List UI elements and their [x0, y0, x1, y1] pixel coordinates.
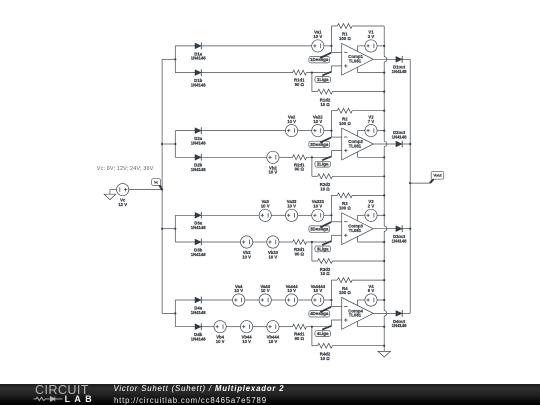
svg-text:10 Ω: 10 Ω	[320, 102, 330, 107]
wire	[175, 241, 195, 243]
wire	[311, 242, 313, 261]
svg-text:90 Ω: 90 Ω	[295, 336, 305, 341]
svg-text:10 V: 10 V	[261, 204, 270, 209]
svg-text:10 V: 10 V	[269, 254, 278, 259]
node output bus	[409, 59, 411, 313]
svg-text:10 V: 10 V	[242, 254, 251, 259]
svg-text:90 Ω: 90 Ω	[295, 82, 305, 87]
junction	[383, 326, 385, 328]
svg-text:10 V: 10 V	[287, 204, 296, 209]
op-amp Comp4	[342, 298, 374, 330]
wire	[373, 312, 396, 314]
wire	[162, 58, 175, 60]
wire	[253, 241, 267, 243]
voltage source Va4444	[311, 284, 326, 306]
svg-text:4Desliga: 4Desliga	[310, 311, 329, 316]
junction	[330, 45, 332, 47]
wire	[358, 45, 365, 47]
svg-text:90 Ω: 90 Ω	[295, 167, 305, 172]
resistor R4d1	[293, 324, 307, 341]
voltage source Vb2	[267, 151, 279, 175]
wire	[201, 156, 267, 158]
svg-text:Vc: Vc	[154, 181, 158, 185]
svg-text:1N4148: 1N4148	[191, 82, 207, 87]
wire	[402, 228, 410, 230]
wire	[358, 156, 385, 158]
voltage source V1	[365, 30, 377, 52]
voltage source Va3	[259, 199, 271, 221]
wire	[357, 215, 359, 221]
wire	[174, 215, 176, 242]
resistor R2d1	[293, 155, 307, 172]
wire	[358, 326, 385, 328]
junction	[174, 312, 176, 314]
wire	[175, 326, 195, 328]
svg-text:10 Ω: 10 Ω	[320, 271, 330, 276]
svg-text:LAB: LAB	[65, 394, 96, 404]
junction	[330, 299, 332, 301]
wire	[331, 279, 337, 281]
switch 1Liga	[315, 72, 331, 83]
wire	[175, 299, 195, 301]
wire	[201, 72, 292, 74]
wire	[279, 326, 293, 328]
wire	[312, 345, 318, 347]
wire	[330, 215, 332, 222]
diode D4out	[392, 310, 408, 328]
wire	[271, 214, 285, 216]
resistor R1d2	[318, 89, 333, 107]
wire	[332, 175, 384, 177]
junction	[161, 143, 163, 145]
wire	[330, 111, 332, 131]
resistor R2	[337, 108, 352, 126]
wire	[312, 260, 318, 262]
svg-text:1N4148: 1N4148	[191, 56, 207, 61]
svg-text:TL081: TL081	[349, 228, 362, 233]
svg-text:100 Ω: 100 Ω	[339, 290, 351, 295]
junction	[383, 91, 385, 93]
wire	[330, 280, 332, 300]
wire	[312, 91, 318, 93]
wire	[324, 130, 332, 132]
wire	[352, 279, 384, 281]
diode D1a	[191, 43, 207, 61]
svg-text:Vout: Vout	[433, 173, 442, 178]
voltage source V2	[365, 114, 377, 136]
svg-text:10 V: 10 V	[269, 170, 278, 175]
junction	[383, 194, 385, 196]
wire	[129, 189, 162, 191]
junction	[383, 175, 385, 177]
wire	[330, 131, 332, 138]
junction	[383, 241, 385, 243]
wire	[298, 130, 312, 132]
net flag Vout	[430, 171, 444, 183]
voltage source Vb4	[214, 321, 226, 345]
junction	[383, 299, 385, 301]
resistor R2d2	[318, 174, 333, 192]
footer title text	[114, 384, 285, 393]
wire	[201, 241, 240, 243]
voltage source Va22	[312, 114, 324, 136]
diode D3b	[191, 239, 207, 257]
diode D2out	[392, 130, 408, 147]
wire	[226, 326, 240, 328]
node Vc bus	[161, 59, 163, 313]
svg-text:10 V: 10 V	[242, 339, 251, 344]
switch 3Liga	[315, 241, 331, 252]
wire	[373, 143, 396, 145]
wire	[201, 45, 312, 47]
wire	[279, 156, 293, 158]
voltage source Va444	[286, 284, 299, 306]
junction	[383, 72, 385, 74]
wire	[331, 221, 341, 223]
wire	[271, 299, 285, 301]
wire	[357, 321, 359, 326]
junction	[174, 143, 176, 145]
wire	[330, 195, 332, 215]
voltage source Va44	[259, 284, 271, 306]
junction	[383, 130, 385, 132]
voltage source Va2	[286, 114, 298, 136]
svg-text:10 V: 10 V	[313, 34, 322, 39]
footer url text	[114, 396, 267, 405]
wire	[331, 306, 341, 308]
diode D4b	[191, 323, 207, 341]
svg-text:10 V: 10 V	[313, 288, 322, 293]
wire	[330, 320, 332, 327]
wire	[330, 151, 332, 158]
svg-text:1N4148: 1N4148	[191, 140, 207, 145]
voltage source Va1	[312, 30, 324, 52]
wire	[358, 299, 365, 301]
svg-text:3Desliga: 3Desliga	[310, 227, 329, 232]
wire	[402, 143, 410, 145]
wire	[307, 326, 332, 328]
junction	[161, 228, 163, 230]
ground	[104, 194, 116, 199]
svg-text:1N4148: 1N4148	[191, 337, 207, 342]
voltage source Vb33	[267, 236, 279, 260]
wire	[357, 152, 359, 157]
wire	[332, 91, 384, 93]
diode D2b	[191, 154, 207, 172]
svg-text:1N4148: 1N4148	[392, 239, 408, 244]
wire	[175, 72, 195, 74]
wire	[357, 300, 359, 306]
wire	[174, 300, 176, 327]
junction	[383, 260, 385, 262]
wire	[175, 130, 195, 132]
op-amp Comp2	[342, 128, 374, 160]
junction	[383, 45, 385, 47]
junction	[383, 345, 385, 347]
junction	[383, 156, 385, 158]
wire	[279, 241, 293, 243]
wire	[330, 26, 332, 46]
svg-text:10 V: 10 V	[313, 119, 322, 124]
node ground rail	[384, 26, 387, 351]
voltage source V4	[365, 284, 377, 306]
junction	[330, 214, 332, 216]
switch 2Liga	[315, 157, 331, 168]
resistor R3d1	[293, 240, 307, 257]
wire	[298, 299, 312, 301]
voltage source Va4	[233, 284, 245, 306]
svg-text:1N4148: 1N4148	[392, 323, 408, 328]
switch 4Desliga	[309, 307, 331, 317]
wire	[174, 46, 176, 73]
junction	[174, 228, 176, 230]
voltage source Va333	[312, 199, 325, 221]
junction	[383, 279, 385, 281]
resistor R3d2	[318, 259, 333, 277]
switch 4Liga	[315, 326, 331, 337]
switch 1Desliga	[309, 53, 331, 63]
svg-text:4Liga: 4Liga	[317, 331, 329, 336]
wire	[357, 67, 359, 72]
svg-text:100 Ω: 100 Ω	[339, 121, 351, 126]
svg-text:TL081: TL081	[349, 143, 362, 148]
resistor R4	[337, 278, 352, 296]
svg-text:10 V: 10 V	[269, 339, 278, 344]
junction	[383, 110, 385, 112]
wire	[357, 131, 359, 137]
op-amp Comp1	[342, 43, 374, 75]
svg-text:10 V: 10 V	[216, 339, 225, 344]
wire	[331, 65, 341, 67]
wire	[162, 228, 175, 230]
wire	[331, 194, 337, 196]
wire	[162, 143, 175, 145]
wire	[402, 312, 410, 314]
wire	[311, 327, 313, 346]
svg-text:7 V: 7 V	[368, 119, 375, 124]
junction	[311, 241, 313, 243]
svg-text:TL081: TL081	[349, 313, 362, 318]
wire	[358, 241, 385, 243]
svg-text:10 V: 10 V	[234, 288, 243, 293]
wire	[253, 326, 267, 328]
resistor R3	[337, 193, 352, 211]
wire	[110, 189, 117, 191]
wire	[331, 136, 341, 138]
resistor R1	[337, 24, 352, 42]
junction	[409, 182, 411, 184]
svg-text:1N4148: 1N4148	[191, 310, 207, 315]
wire	[352, 25, 384, 27]
wire	[331, 150, 341, 152]
svg-text:1Liga: 1Liga	[317, 77, 329, 82]
wire	[358, 130, 365, 132]
svg-text:100 Ω: 100 Ω	[339, 36, 351, 41]
voltage source Vb44	[241, 321, 253, 345]
wire	[332, 260, 384, 262]
wire	[352, 110, 384, 112]
svg-text:1N4148: 1N4148	[191, 167, 207, 172]
switch 3Desliga	[309, 222, 331, 232]
wire	[331, 51, 341, 53]
wire	[109, 190, 111, 195]
resistor R1d1	[293, 70, 307, 87]
svg-text:10 V: 10 V	[313, 204, 322, 209]
svg-text:1N4148: 1N4148	[191, 252, 207, 257]
junction	[330, 130, 332, 132]
junction	[311, 72, 313, 74]
wire	[311, 73, 313, 92]
wire	[331, 319, 341, 321]
wire	[410, 182, 430, 184]
svg-text:100 Ω: 100 Ω	[339, 206, 351, 211]
wire	[377, 130, 384, 132]
svg-text:1N4148: 1N4148	[191, 225, 207, 230]
wire	[245, 299, 259, 301]
voltage source Va33	[286, 199, 298, 221]
svg-text:10 V: 10 V	[287, 119, 296, 124]
wire	[201, 299, 232, 301]
wire	[307, 72, 332, 74]
svg-text:1N4148: 1N4148	[392, 135, 408, 140]
op-amp Comp3	[342, 213, 374, 245]
wire	[175, 156, 195, 158]
diode D3out	[392, 225, 408, 243]
wire	[201, 214, 259, 216]
wire	[175, 45, 195, 47]
junction	[161, 189, 163, 191]
junction	[383, 214, 385, 216]
wire	[377, 214, 384, 216]
wire	[324, 214, 332, 216]
switch 2Desliga	[309, 137, 331, 147]
wire	[324, 45, 332, 47]
CircuitLab logo	[0, 384, 120, 405]
wire	[402, 58, 410, 60]
junction	[174, 58, 176, 60]
wire	[330, 46, 332, 53]
svg-text:10 V: 10 V	[287, 288, 296, 293]
wire	[298, 214, 312, 216]
voltage source Vb3	[241, 236, 253, 260]
svg-text:90 Ω: 90 Ω	[295, 251, 305, 256]
svg-text:12 V: 12 V	[118, 202, 127, 207]
wire	[330, 66, 332, 73]
diode D1b	[191, 69, 207, 87]
svg-text:Vc: 6V; 12V; 24V; 36V.: Vc: 6V; 12V; 24V; 36V.	[97, 166, 155, 172]
net flag Vc	[152, 179, 163, 190]
svg-text:10 Ω: 10 Ω	[320, 187, 330, 192]
junction	[311, 326, 313, 328]
wire	[201, 130, 285, 132]
svg-text:1Desliga: 1Desliga	[310, 57, 329, 62]
wire	[324, 299, 332, 301]
wire	[331, 25, 337, 27]
wire	[201, 326, 214, 328]
svg-text:2 V: 2 V	[368, 204, 375, 209]
diode D1out	[392, 56, 408, 74]
junction	[409, 228, 411, 230]
wire	[174, 131, 176, 158]
voltage source Vc	[117, 184, 129, 208]
wire	[311, 157, 313, 176]
svg-text:10 Ω: 10 Ω	[320, 356, 330, 361]
ground	[378, 351, 390, 357]
junction	[409, 143, 411, 145]
wire	[377, 45, 384, 47]
svg-text:2Desliga: 2Desliga	[310, 142, 329, 147]
voltage source Vb444	[267, 321, 280, 345]
svg-text:9 V: 9 V	[368, 288, 375, 293]
diode D2a	[191, 127, 207, 145]
svg-text:3 V: 3 V	[368, 34, 375, 39]
wire	[357, 46, 359, 52]
wire	[307, 156, 332, 158]
wire	[330, 300, 332, 307]
svg-text:1N4148: 1N4148	[392, 69, 408, 74]
diode D4a	[191, 297, 207, 315]
wire	[358, 72, 385, 74]
wire	[312, 175, 318, 177]
wire	[331, 234, 341, 236]
voltage source V3	[365, 199, 377, 221]
diode D3a	[191, 212, 207, 230]
wire	[357, 237, 359, 242]
wire	[330, 235, 332, 242]
resistor R4d2	[318, 343, 333, 361]
svg-text:3Liga: 3Liga	[317, 246, 329, 251]
svg-text:TL081: TL081	[349, 59, 362, 64]
wire	[175, 214, 195, 216]
wire	[358, 214, 365, 216]
svg-text:10 V: 10 V	[261, 288, 270, 293]
wire	[332, 345, 384, 347]
wire	[307, 241, 332, 243]
wire	[331, 110, 337, 112]
svg-text:2Liga: 2Liga	[317, 162, 329, 167]
junction	[311, 156, 313, 158]
wire	[373, 228, 396, 230]
footer bar	[0, 384, 540, 405]
wire	[377, 299, 384, 301]
wire	[162, 312, 175, 314]
wire	[352, 194, 384, 196]
wire	[373, 58, 396, 60]
